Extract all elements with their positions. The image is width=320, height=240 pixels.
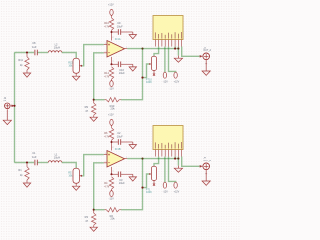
wire trimmer wiper to feedback	[143, 64, 150, 78]
power flag -12V module	[163, 72, 166, 78]
ground below R1	[23, 183, 30, 187]
resistor R14 4.7k	[109, 67, 113, 79]
capacitor C2 10uF	[117, 139, 119, 145]
inductor L1 10uH	[48, 161, 62, 163]
ground below module	[177, 166, 179, 169]
junction output/feedback	[141, 48, 143, 50]
wire cap to inductor	[38, 162, 49, 164]
svg-text:C1: C1	[32, 151, 36, 155]
junction pin7	[174, 158, 176, 160]
resistor R4 4.7k	[109, 177, 113, 189]
capacitor C3 10uF	[117, 172, 119, 178]
junction node input/R1	[26, 161, 28, 163]
wire V+ node to cap	[112, 141, 118, 143]
svg-text:R14: R14	[104, 71, 109, 75]
wire pin7 to output net	[174, 157, 176, 159]
wire feedback node to Rf	[94, 209, 105, 211]
pin stub opamp +in	[104, 154, 107, 156]
svg-text:10uH: 10uH	[54, 155, 60, 159]
svg-text:IN: IN	[4, 100, 7, 102]
power flag -12V	[110, 81, 113, 87]
ground below pot	[73, 76, 80, 80]
pin stub opamp output	[125, 158, 128, 160]
pin stub pot bottom	[75, 183, 77, 186]
resistor R3 47	[93, 210, 95, 213]
ground below R11	[23, 73, 30, 77]
svg-text:R3: R3	[85, 215, 89, 219]
svg-text:1uF: 1uF	[32, 155, 37, 159]
svg-text:4.7k: 4.7k	[104, 184, 110, 188]
wire cap to ground	[121, 141, 133, 143]
wire feedback to opamp -in	[94, 163, 104, 210]
junction pin8	[177, 158, 179, 160]
power flag -12V module	[163, 182, 166, 188]
module A1	[153, 16, 183, 40]
opamp input marks	[108, 44, 110, 53]
svg-text:-12V: -12V	[163, 190, 168, 193]
svg-text:20k: 20k	[110, 107, 115, 111]
wire Rf to output node	[121, 49, 143, 100]
junction feedback node	[93, 99, 95, 101]
wire cap to ground	[121, 31, 133, 33]
stem J2 to ground	[6, 109, 8, 120]
wire pin8 to output net	[177, 157, 179, 159]
svg-text:IC1B: IC1B	[115, 147, 121, 151]
svg-text:C2: C2	[117, 131, 121, 135]
junction pin8	[177, 48, 179, 50]
svg-text:4.7k: 4.7k	[104, 74, 110, 78]
wire V+ node to cap	[112, 31, 118, 33]
svg-text:-12V: -12V	[163, 80, 168, 83]
junction pin7	[174, 48, 176, 50]
capacitor C8 1uF	[34, 50, 36, 56]
svg-text:2: 2	[105, 51, 106, 53]
power flag -12V	[110, 191, 113, 197]
trimmer bottom stub + no-connect	[153, 180, 155, 183]
wire V- cap to ground	[121, 63, 133, 65]
wire opamp output	[127, 158, 178, 160]
module A2 pin name marks	[154, 142, 157, 148]
wire pin4 to -12V flag	[164, 157, 166, 183]
connector J3	[203, 53, 210, 60]
module A1 pins 1-9	[154, 40, 156, 47]
trimmer bottom stub + no-connect	[153, 70, 155, 73]
svg-text:R11: R11	[18, 58, 23, 62]
wire shared input bus vertical	[14, 53, 16, 163]
capacitor C9 10uF	[117, 29, 119, 35]
svg-text:+12V: +12V	[108, 4, 114, 7]
svg-text:1uF: 1uF	[32, 45, 37, 49]
wire feedback to opamp -in	[94, 53, 104, 100]
svg-text:10uH: 10uH	[54, 45, 60, 49]
resistor R1 1k	[26, 163, 28, 167]
wire trimmer wiper to feedback	[143, 174, 150, 188]
wire V- cap to ground	[121, 173, 133, 175]
pin arrow J4	[200, 165, 203, 168]
ground below module	[177, 56, 179, 59]
ground V- cap	[132, 174, 134, 177]
wire pin4 to -12V flag	[164, 47, 166, 73]
wire pin8 to ground	[177, 49, 179, 56]
svg-text:R4: R4	[104, 181, 108, 185]
pin stub opamp -in	[104, 52, 107, 54]
wire pin2 to trimmer	[154, 47, 159, 57]
module A2	[153, 126, 183, 150]
junction trimmer wiper	[141, 77, 143, 79]
trimmer PT10 body	[151, 56, 156, 70]
pin stub pot bottom	[75, 73, 77, 76]
pin opamp V-	[111, 167, 113, 174]
svg-text:C10: C10	[119, 68, 124, 72]
trimmer PT1 wiper arrow	[149, 173, 151, 175]
pin opamp V+	[111, 32, 113, 41]
power flag +12V	[110, 9, 113, 15]
junction V+ node	[110, 141, 112, 143]
ground below J2	[3, 120, 11, 124]
svg-text:4: 4	[112, 170, 113, 172]
junction V+ node	[110, 31, 112, 33]
resistor R10 20k	[105, 99, 107, 101]
op-amp IC1B	[107, 151, 125, 168]
opamp input marks	[108, 154, 110, 163]
connector J2 input jack	[5, 103, 11, 109]
wire inductor to pot	[62, 163, 76, 169]
ground below R9	[90, 117, 97, 121]
junction trimmer wiper	[141, 187, 143, 189]
wire pot wiper to opamp +in	[82, 45, 104, 66]
pin opamp V+	[111, 142, 113, 151]
power flag +12V module	[174, 72, 177, 78]
svg-text:C8: C8	[32, 41, 36, 45]
potentiometer R15 body	[73, 58, 79, 73]
svg-text:R1: R1	[18, 168, 22, 172]
svg-text:+12V: +12V	[108, 114, 114, 117]
pin mark J4	[205, 172, 207, 175]
svg-text:OUT_B: OUT_B	[203, 160, 211, 162]
potentiometer R15 wiper arrow	[79, 65, 82, 67]
wire inductor to pot	[62, 53, 76, 59]
potentiometer R5 wiper arrow	[79, 175, 82, 177]
svg-text:4.7k: 4.7k	[104, 24, 110, 28]
junction feedback node	[93, 209, 95, 211]
inductor L2 10uH	[48, 51, 62, 53]
pin opamp V-	[111, 57, 113, 64]
svg-text:100K: 100K	[146, 191, 152, 194]
capacitor C1 1uF	[34, 160, 36, 166]
pin stub opamp +in	[104, 44, 107, 46]
pin stub opamp output	[125, 48, 128, 50]
svg-text:10uF: 10uF	[117, 25, 123, 29]
ground V- cap	[132, 64, 134, 67]
resistor R9 47	[93, 100, 95, 103]
wire pin9 to output jack	[182, 47, 200, 57]
wire pot wiper to opamp +in	[82, 155, 104, 176]
wire pin5 to +12V flag	[169, 157, 176, 183]
svg-text:3: 3	[105, 153, 106, 155]
junction output/feedback	[141, 158, 143, 160]
ground below J4	[202, 181, 210, 185]
svg-text:20k: 20k	[110, 217, 115, 221]
ground V+ cap	[132, 32, 134, 35]
pin arrow J2	[10, 105, 13, 107]
svg-text:2: 2	[105, 161, 106, 163]
svg-text:C3: C3	[119, 178, 123, 182]
svg-text:-12V: -12V	[109, 87, 114, 90]
trimmer PT10 wiper arrow	[149, 63, 151, 65]
module A1 pin name marks	[154, 32, 157, 38]
wire Rf to output node	[121, 159, 143, 210]
capacitor C10 10uF	[117, 62, 119, 68]
ground V+ cap	[132, 142, 134, 145]
pin stub opamp -in	[104, 162, 107, 164]
svg-text:3: 3	[105, 43, 106, 45]
ground below R3	[90, 227, 97, 231]
connector J4	[203, 163, 210, 170]
power flag +12V module	[174, 182, 177, 188]
svg-text:R9: R9	[85, 105, 89, 109]
svg-text:100K: 100K	[146, 81, 152, 84]
ground below J3	[202, 71, 210, 75]
svg-text:+12V: +12V	[174, 80, 180, 83]
junction V- node	[110, 173, 112, 175]
wire pin5 to +12V flag	[169, 47, 176, 73]
op-amp IC1A	[107, 41, 125, 58]
svg-text:OUT_A: OUT_A	[203, 49, 211, 52]
resistor R6 4.7k	[109, 128, 113, 140]
wire input net to C8	[15, 52, 35, 54]
pin mark J3	[205, 62, 207, 65]
resistor R16 4.7k	[109, 18, 113, 30]
junction input bus	[13, 105, 15, 107]
wire V- node to cap	[112, 173, 118, 175]
resistor R11 1k	[26, 53, 28, 57]
wire V- node to cap	[112, 63, 118, 65]
resistor R2 20k	[105, 209, 107, 211]
svg-text:8: 8	[112, 37, 113, 39]
wire opamp output	[127, 48, 178, 50]
wire cap to inductor	[38, 52, 49, 54]
wire pin8 to output net	[177, 47, 179, 49]
potentiometer R5 body	[73, 168, 79, 183]
svg-text:4: 4	[112, 60, 113, 62]
wire pin9 to output jack	[182, 157, 200, 167]
svg-text:4.7k: 4.7k	[104, 134, 110, 138]
wire pin2 to trimmer	[154, 157, 159, 167]
wire feedback node to Rf	[94, 99, 105, 101]
ground below pot	[73, 186, 80, 190]
junction V- node	[110, 63, 112, 65]
svg-text:8: 8	[112, 147, 113, 149]
svg-text:R16: R16	[104, 21, 109, 25]
svg-text:R6: R6	[104, 131, 108, 135]
pin arrow J3	[200, 55, 203, 58]
svg-text:10uF: 10uF	[119, 181, 125, 185]
stem J4 to ground	[205, 170, 207, 181]
svg-text:C9: C9	[117, 21, 121, 25]
trimmer PT1 body	[151, 166, 156, 180]
svg-text:10uF: 10uF	[117, 135, 123, 139]
junction node input/R11	[26, 51, 28, 53]
svg-text:-12V: -12V	[109, 197, 114, 200]
power flag +12V	[110, 119, 113, 125]
module A2 pins 1-9	[154, 150, 156, 157]
wire input net to C1	[15, 162, 35, 164]
svg-text:+12V: +12V	[174, 190, 180, 193]
wire pin8 to ground	[177, 159, 179, 166]
svg-text:10uF: 10uF	[119, 71, 125, 75]
wire pin7 to output net	[174, 47, 176, 49]
svg-text:IC1A: IC1A	[115, 37, 121, 41]
stem J3 to ground	[205, 60, 207, 71]
